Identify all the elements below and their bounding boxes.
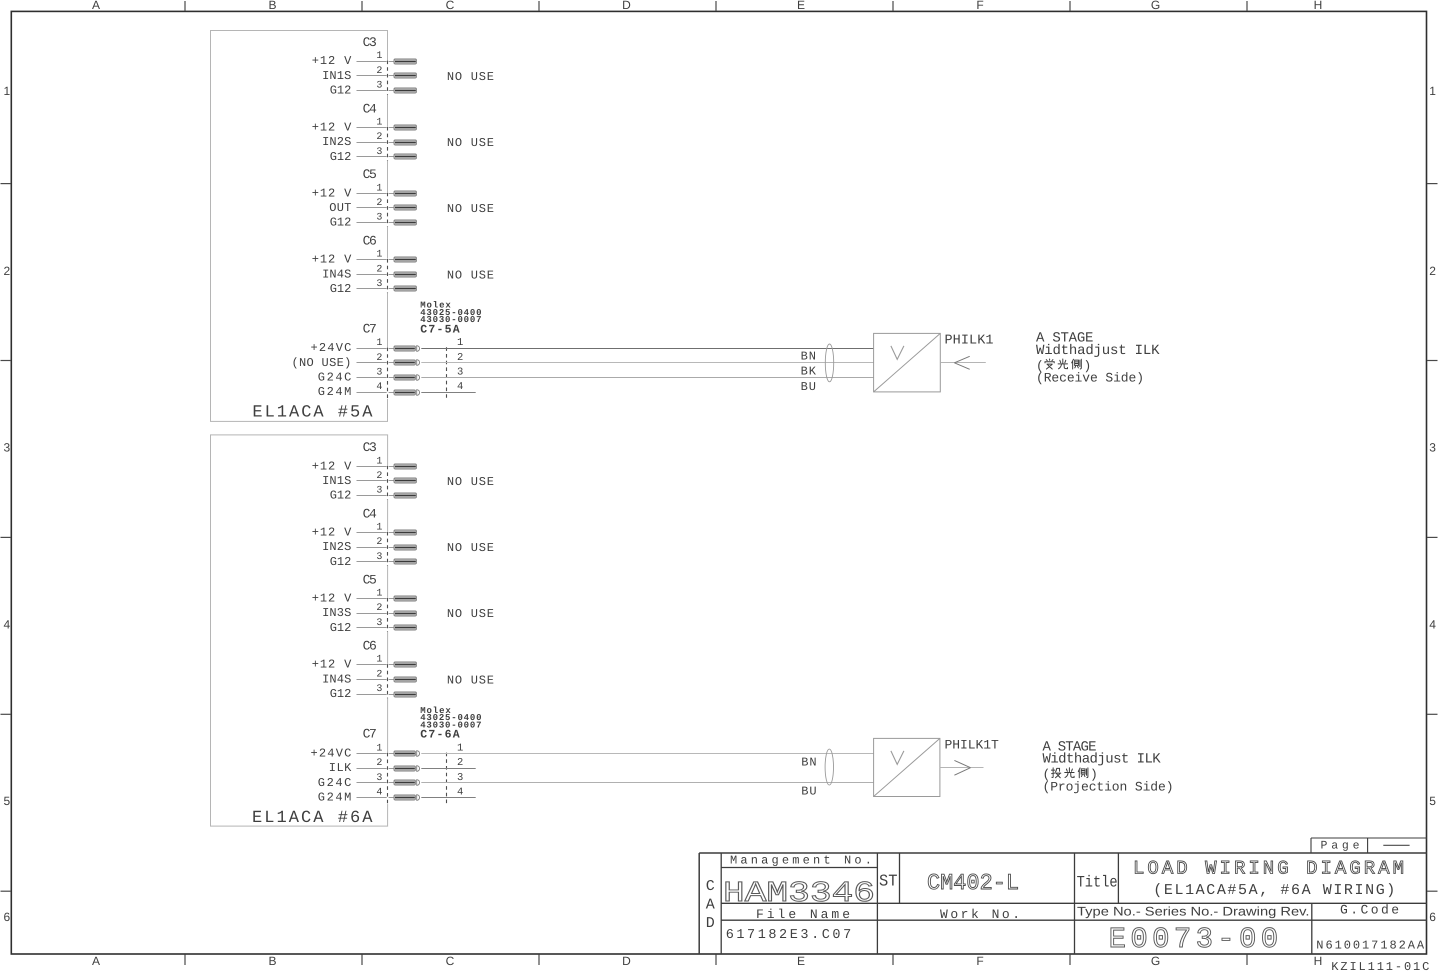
svg-text:4: 4 — [457, 381, 463, 393]
C6 connector face (dashed) — [387, 664, 389, 698]
svg-text:3: 3 — [376, 684, 382, 695]
C3 connector face (dashed) — [387, 60, 389, 94]
crimp terminal (C5 pin 1) — [394, 191, 416, 196]
svg-text:3: 3 — [4, 441, 11, 455]
svg-text:C5: C5 — [363, 572, 377, 587]
svg-text:C: C — [446, 0, 455, 12]
crimp terminal (C5 pin 3) — [394, 220, 416, 225]
cable C7-6A wire 1 — [421, 753, 873, 755]
note (Toukougawa - projection side kanji) — [1043, 767, 1098, 782]
svg-text:IN3S: IN3S — [322, 606, 351, 620]
cable sleeve (upper) — [825, 344, 833, 382]
svg-text:1: 1 — [457, 742, 463, 754]
svg-text:6: 6 — [4, 910, 11, 924]
receive-side beam arrow — [954, 356, 969, 369]
note (Jukougawa - receive side kanji) — [1036, 358, 1091, 373]
svg-text:D: D — [622, 0, 631, 12]
frame column ticks (bottom edge) — [185, 955, 1247, 966]
svg-text:+12 V: +12 V — [312, 253, 352, 267]
crimp terminal (C7 pin 3) — [394, 375, 420, 381]
svg-text:G: G — [1151, 954, 1160, 968]
C7 pin 3 wire — [357, 782, 395, 784]
svg-text:1: 1 — [376, 589, 382, 600]
C5 pin 2 wire — [357, 613, 395, 615]
C7 pin 3 wire — [357, 377, 395, 379]
svg-text:1: 1 — [376, 338, 382, 349]
svg-text:1: 1 — [376, 523, 382, 534]
connector C7 (EL1ACA #5A) — [363, 321, 377, 336]
svg-text:(Receive Side): (Receive Side) — [1036, 371, 1144, 386]
cable sleeve (lower) — [825, 749, 833, 785]
svg-text:(EL1ACA#5A, #6A WIRING): (EL1ACA#5A, #6A WIRING) — [1153, 882, 1395, 899]
svg-text:PHILK1T: PHILK1T — [945, 737, 999, 752]
svg-text:G12: G12 — [330, 687, 352, 701]
svg-text:G12: G12 — [330, 489, 352, 503]
svg-text:C7: C7 — [363, 727, 377, 742]
grid numbers right 1-6 — [1429, 84, 1436, 924]
svg-text:OUT: OUT — [329, 201, 351, 215]
svg-text:A: A — [92, 0, 100, 12]
svg-text:1: 1 — [4, 84, 11, 98]
svg-text:KZIL111-01C: KZIL111-01C — [1331, 960, 1429, 974]
crimp terminal (C4 pin 1) — [394, 125, 416, 130]
svg-text:IN2S: IN2S — [322, 135, 351, 149]
svg-text:NO USE: NO USE — [447, 268, 494, 282]
svg-text:4: 4 — [376, 788, 382, 799]
svg-text:BN: BN — [801, 350, 816, 364]
svg-text:1: 1 — [376, 456, 382, 467]
svg-text:+12 V: +12 V — [312, 121, 352, 135]
crimp terminal (C6 pin 3) — [394, 286, 416, 291]
svg-text:+12 V: +12 V — [312, 526, 352, 540]
svg-text:3: 3 — [376, 368, 382, 379]
crimp terminal (C6 pin 2) — [394, 677, 416, 682]
crimp terminal (C3 pin 1) — [394, 464, 416, 469]
svg-text:IN4S: IN4S — [322, 672, 351, 686]
svg-text:C: C — [446, 954, 455, 968]
C3 pin 2 wire — [357, 75, 395, 77]
svg-text:G12: G12 — [330, 621, 352, 635]
C3 pin 3 wire — [357, 495, 395, 497]
frame column ticks (top edge) — [185, 1, 1247, 11]
C7 pin 1 wire — [357, 753, 395, 755]
svg-text:2: 2 — [4, 264, 11, 278]
C5 pin 3 wire — [357, 627, 395, 629]
svg-text:NO USE: NO USE — [447, 136, 494, 150]
svg-text:G24C: G24C — [318, 776, 352, 790]
crimp terminal (C4 pin 2) — [394, 140, 416, 145]
svg-text:4: 4 — [4, 618, 11, 632]
C4 pin 2 wire — [357, 547, 395, 549]
page number box — [1311, 838, 1427, 853]
svg-text:EL1ACA #5A: EL1ACA #5A — [252, 404, 373, 423]
svg-text:Title: Title — [1077, 874, 1118, 892]
cable C7-5A wire 4 — [421, 392, 475, 394]
svg-text:5: 5 — [4, 794, 11, 808]
svg-text:C7-6A: C7-6A — [420, 729, 459, 742]
C4 pin 2 wire — [357, 142, 395, 144]
svg-text:2: 2 — [376, 603, 382, 614]
svg-text:1: 1 — [457, 337, 463, 349]
svg-text:1: 1 — [376, 118, 382, 129]
crimp terminal (C5 pin 3) — [394, 625, 416, 630]
svg-text:D: D — [706, 915, 715, 932]
svg-text:G24C: G24C — [318, 371, 352, 385]
svg-text:3: 3 — [376, 81, 382, 92]
C7 pin 2 wire — [357, 362, 395, 364]
C3 pin 3 wire — [357, 90, 395, 92]
svg-text:E: E — [797, 0, 805, 12]
svg-text:+24VC: +24VC — [311, 746, 352, 760]
svg-text:+12 V: +12 V — [312, 186, 352, 200]
svg-text:EL1ACA #6A: EL1ACA #6A — [252, 809, 373, 828]
crimp terminal (C5 pin 2) — [394, 205, 416, 210]
cable connector label Molex (C7-5A) — [420, 301, 481, 337]
connector C6 (EL1ACA #5A) — [363, 234, 377, 249]
svg-text:HAM3346: HAM3346 — [723, 877, 875, 910]
crimp terminal (C5 pin 1) — [394, 596, 416, 601]
frame row ticks (right edge) — [1427, 184, 1438, 892]
C7 connector face (dashed) — [387, 753, 389, 805]
connector C4 (EL1ACA #5A) — [363, 101, 377, 116]
photoelectric sensor PHILK1T — [874, 738, 940, 796]
crimp terminal (C7 pin 4) — [394, 795, 420, 801]
C5 pin 2 wire — [357, 207, 395, 209]
C6 pin 2 wire — [357, 274, 395, 276]
cable C7-5A wire 3 — [421, 377, 873, 379]
svg-text:ST: ST — [879, 871, 898, 890]
svg-text:ILK: ILK — [329, 761, 352, 775]
svg-text:5: 5 — [1429, 794, 1436, 808]
connector C5 (EL1ACA #5A) — [363, 167, 377, 182]
svg-text:C3: C3 — [363, 440, 377, 455]
connector C7 (EL1ACA #6A) — [363, 727, 377, 742]
svg-text:C7: C7 — [363, 321, 377, 336]
C5 pin 3 wire — [357, 222, 395, 224]
C7 pin 2 wire — [357, 768, 395, 770]
crimp terminal (C3 pin 2) — [394, 478, 416, 483]
crimp terminal (C7 pin 1) — [394, 346, 420, 352]
svg-text:NO USE: NO USE — [447, 541, 494, 555]
svg-text:BK: BK — [801, 364, 817, 378]
svg-text:PHILK1: PHILK1 — [945, 333, 994, 348]
connector C3 (EL1ACA #5A) — [363, 35, 377, 50]
C3 connector face (dashed) — [387, 465, 389, 499]
cable C7-6A wire 4 — [421, 797, 475, 799]
svg-text:IN2S: IN2S — [322, 540, 351, 554]
svg-text:A: A — [92, 954, 100, 968]
crimp terminal (C3 pin 3) — [394, 493, 416, 498]
crimp terminal (C4 pin 1) — [394, 530, 416, 535]
C4 pin 1 wire — [357, 532, 395, 534]
frame row ticks (left edge) — [1, 184, 12, 892]
crimp terminal (C6 pin 2) — [394, 272, 416, 277]
svg-text:File Name: File Name — [756, 907, 850, 922]
crimp terminal (C6 pin 1) — [394, 662, 416, 667]
projection-side beam line — [940, 767, 984, 769]
projection-side beam arrow — [954, 760, 970, 775]
svg-text:G24M: G24M — [318, 385, 352, 399]
C6 pin 3 wire — [357, 694, 395, 696]
svg-text:NO USE: NO USE — [447, 607, 494, 621]
C6 pin 1 wire — [357, 664, 395, 666]
svg-text:2: 2 — [457, 757, 463, 769]
board EL1ACA #5A outline — [211, 31, 388, 422]
svg-text:2: 2 — [376, 132, 382, 143]
cable C7-5A wire 1 — [421, 348, 873, 350]
sensor V mark — [891, 751, 904, 765]
svg-text:2: 2 — [1429, 264, 1436, 278]
svg-text:2: 2 — [376, 264, 382, 275]
grid letters bottom A-H — [92, 954, 1322, 968]
crimp terminal (C5 pin 2) — [394, 611, 416, 616]
svg-text:H: H — [1314, 0, 1323, 12]
svg-text:E: E — [797, 954, 805, 968]
C7 connector face (dashed) — [387, 347, 389, 399]
svg-text:+12 V: +12 V — [312, 54, 352, 68]
svg-text:3: 3 — [457, 367, 463, 379]
svg-text:Type No.- Series No.- Drawing: Type No.- Series No.- Drawing Rev. — [1077, 904, 1310, 918]
C3 pin 1 wire — [357, 61, 395, 63]
svg-text:(NO USE): (NO USE) — [292, 356, 352, 370]
svg-text:1: 1 — [376, 743, 382, 754]
svg-text:G12: G12 — [330, 282, 352, 296]
svg-text:4: 4 — [376, 382, 382, 393]
svg-text:BN: BN — [801, 755, 816, 769]
C4 pin 3 wire — [357, 156, 395, 158]
svg-text:BU: BU — [801, 380, 816, 394]
svg-text:IN4S: IN4S — [322, 267, 351, 281]
svg-text:IN1S: IN1S — [322, 474, 351, 488]
svg-text:2: 2 — [376, 758, 382, 769]
C7 pin 4 wire — [357, 392, 395, 394]
crimp terminal (C7 pin 1) — [394, 751, 420, 757]
svg-text:N610017182AA: N610017182AA — [1316, 939, 1425, 953]
crimp terminal (C7 pin 2) — [394, 766, 420, 772]
svg-text:+12 V: +12 V — [312, 658, 352, 672]
svg-text:4: 4 — [457, 787, 463, 799]
crimp terminal (C6 pin 3) — [394, 692, 416, 697]
C5 connector face (dashed) — [387, 192, 389, 226]
C6 pin 2 wire — [357, 679, 395, 681]
crimp terminal (C4 pin 3) — [394, 154, 416, 159]
crimp terminal (C3 pin 3) — [394, 88, 416, 93]
crimp terminal (C4 pin 2) — [394, 545, 416, 550]
sensor V mark — [891, 346, 904, 360]
C6 pin 1 wire — [357, 259, 395, 261]
svg-text:NO USE: NO USE — [447, 70, 494, 84]
cable connector label Molex (C7-6A) — [420, 706, 481, 742]
svg-text:+12 V: +12 V — [312, 592, 352, 606]
svg-text:G12: G12 — [330, 216, 352, 230]
svg-text:1: 1 — [376, 183, 382, 194]
svg-text:C3: C3 — [363, 35, 377, 50]
C4 pin 3 wire — [357, 561, 395, 563]
title block grid — [699, 853, 1427, 954]
connector C5 (EL1ACA #6A) — [363, 572, 377, 587]
svg-text:+24VC: +24VC — [311, 341, 352, 355]
connector C4 (EL1ACA #6A) — [363, 506, 377, 521]
svg-text:H: H — [1314, 954, 1323, 968]
cable C7-6A wire 3 — [421, 782, 873, 784]
svg-text:D: D — [622, 954, 631, 968]
C3 pin 1 wire — [357, 466, 395, 468]
svg-text:F: F — [976, 0, 983, 12]
CAD letters — [706, 878, 715, 932]
receive-side beam line — [940, 362, 986, 364]
C5 pin 1 wire — [357, 598, 395, 600]
svg-text:C6: C6 — [363, 639, 377, 654]
svg-text:NO USE: NO USE — [447, 202, 494, 216]
cable C7-6A wire 2 — [421, 768, 475, 770]
svg-text:B: B — [268, 954, 276, 968]
C4 connector face (dashed) — [387, 532, 389, 566]
C6 connector face (dashed) — [387, 259, 389, 293]
svg-text:G24M: G24M — [318, 791, 352, 805]
svg-text:C6: C6 — [363, 234, 377, 249]
svg-text:F: F — [976, 954, 983, 968]
svg-text:C4: C4 — [363, 506, 377, 521]
svg-text:IN1S: IN1S — [322, 69, 351, 83]
crimp terminal (C3 pin 2) — [394, 73, 416, 78]
page number placeholder dash — [1383, 844, 1409, 846]
connector C3 (EL1ACA #6A) — [363, 440, 377, 455]
svg-text:+12 V: +12 V — [312, 459, 352, 473]
svg-text:2: 2 — [376, 669, 382, 680]
photoelectric sensor PHILK1 — [874, 333, 941, 392]
svg-text:C5: C5 — [363, 167, 377, 182]
svg-text:1: 1 — [376, 51, 382, 62]
cable C7-5A wire 2 — [421, 362, 873, 364]
C7 pin 4 wire — [357, 797, 395, 799]
C6 pin 3 wire — [357, 288, 395, 290]
svg-text:Widthadjust ILK: Widthadjust ILK — [1043, 752, 1162, 768]
grid numbers left 1-6 — [4, 84, 11, 924]
crimp terminal (C7 pin 4) — [394, 390, 420, 396]
C4 connector face (dashed) — [387, 127, 389, 161]
grid letters top A-H — [92, 0, 1322, 12]
C5 pin 1 wire — [357, 193, 395, 195]
svg-text:C7-5A: C7-5A — [420, 323, 459, 336]
svg-text:C4: C4 — [363, 101, 377, 116]
svg-text:G: G — [1151, 0, 1160, 12]
svg-text:B: B — [268, 0, 276, 12]
svg-text:6: 6 — [1429, 910, 1436, 924]
svg-text:2: 2 — [376, 537, 382, 548]
svg-text:1: 1 — [1429, 84, 1436, 98]
svg-text:A: A — [706, 897, 715, 914]
svg-text:NO USE: NO USE — [447, 673, 494, 687]
svg-text:G12: G12 — [330, 84, 352, 98]
svg-text:CM402-L: CM402-L — [927, 870, 1019, 896]
svg-text:C: C — [706, 878, 715, 895]
svg-text:G12: G12 — [330, 150, 352, 164]
svg-text:BU: BU — [801, 784, 816, 798]
svg-text:Widthadjust ILK: Widthadjust ILK — [1036, 343, 1160, 359]
connector C6 (EL1ACA #6A) — [363, 639, 377, 654]
crimp terminal (C6 pin 1) — [394, 257, 416, 262]
board EL1ACA #6A outline — [211, 435, 388, 826]
svg-text:G12: G12 — [330, 555, 352, 569]
svg-text:3: 3 — [1429, 441, 1436, 455]
crimp terminal (C4 pin 3) — [394, 559, 416, 564]
cable C7-6A mating face (dashed) — [446, 753, 448, 805]
cable C7-5A mating face (dashed) — [446, 347, 448, 399]
crimp terminal (C7 pin 3) — [394, 780, 420, 786]
svg-text:1: 1 — [376, 250, 382, 261]
C7 pin 1 wire — [357, 348, 395, 350]
C3 pin 2 wire — [357, 480, 395, 482]
crimp terminal (C3 pin 1) — [394, 59, 416, 64]
crimp terminal (C7 pin 2) — [394, 360, 420, 366]
svg-text:NO USE: NO USE — [447, 475, 494, 489]
C4 pin 1 wire — [357, 127, 395, 129]
C5 connector face (dashed) — [387, 598, 389, 632]
svg-text:4: 4 — [1429, 618, 1436, 632]
svg-text:(Projection Side): (Projection Side) — [1043, 779, 1174, 794]
